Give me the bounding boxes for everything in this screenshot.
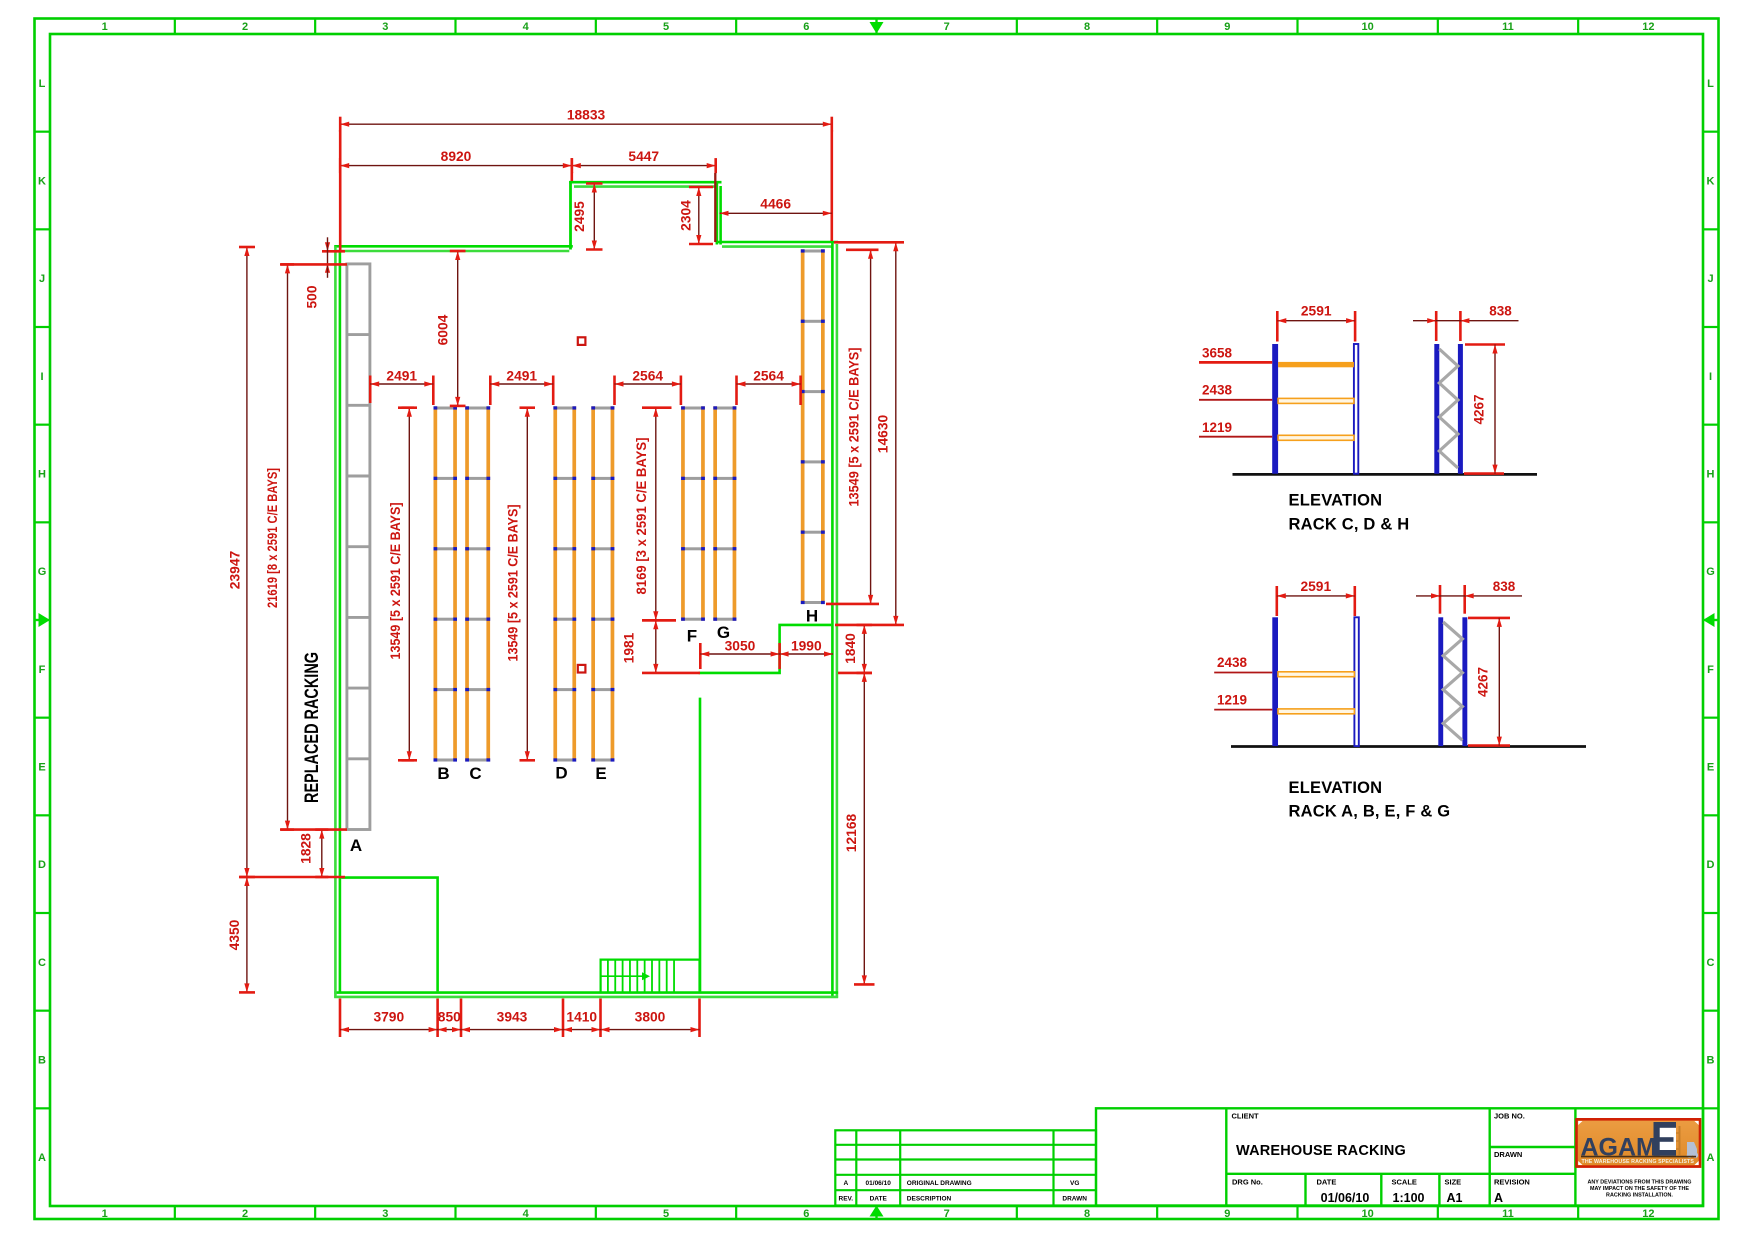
svg-text:DATE: DATE: [1317, 1178, 1337, 1187]
svg-text:10: 10: [1362, 1208, 1374, 1220]
svg-text:ELEVATION: ELEVATION: [1289, 492, 1383, 510]
svg-text:3050: 3050: [725, 639, 756, 654]
svg-text:SIZE: SIZE: [1445, 1178, 1462, 1187]
AGAME logo: [1577, 1119, 1701, 1166]
svg-text:1828: 1828: [299, 833, 314, 864]
svg-text:K: K: [38, 176, 46, 188]
centre mark arrow right: [1703, 613, 1719, 627]
svg-text:DRG No.: DRG No.: [1232, 1178, 1263, 1187]
svg-text:2438: 2438: [1217, 655, 1248, 670]
svg-text:1219: 1219: [1202, 420, 1232, 435]
svg-text:1:100: 1:100: [1393, 1191, 1425, 1205]
wall bottom: [334, 993, 838, 997]
svg-text:WAREHOUSE RACKING: WAREHOUSE RACKING: [1236, 1142, 1406, 1159]
svg-text:DRAWN: DRAWN: [1494, 1150, 1522, 1159]
dim 1410: [563, 1010, 601, 1033]
interior partition wall: [699, 625, 832, 673]
elevation 2 level 2438: [1214, 655, 1272, 673]
elevation 1 upright left: [1272, 344, 1278, 474]
rack E: [591, 406, 614, 761]
elevation 2 dim 4267: [1468, 618, 1510, 746]
centre mark arrow bottom: [870, 1206, 884, 1220]
svg-text:VG: VG: [1070, 1180, 1079, 1187]
svg-text:D: D: [1707, 859, 1715, 871]
svg-text:A: A: [1707, 1152, 1715, 1164]
svg-text:RACK C, D & H: RACK C, D & H: [1289, 516, 1410, 534]
elevation 2 frame upright left: [1438, 617, 1443, 746]
staircase: [601, 960, 700, 993]
elevation 2 ground line: [1231, 745, 1586, 748]
svg-text:4267: 4267: [1476, 667, 1491, 697]
elevation 2 level 1219: [1214, 693, 1272, 710]
elevation 2 dim 838: [1416, 579, 1522, 614]
svg-text:2491: 2491: [506, 369, 537, 384]
svg-text:H: H: [1707, 469, 1715, 481]
dim 8169 racks F G: [634, 408, 676, 621]
elevation 2 title: [1289, 779, 1451, 821]
wall right: [832, 241, 837, 998]
svg-text:3800: 3800: [635, 1010, 666, 1025]
svg-text:2564: 2564: [632, 369, 663, 384]
svg-text:A: A: [350, 836, 362, 855]
dim 13549 rack H: [826, 250, 879, 604]
svg-text:3: 3: [382, 21, 388, 33]
corner room wall: [341, 878, 437, 992]
svg-text:6004: 6004: [435, 314, 450, 345]
svg-text:8920: 8920: [441, 149, 472, 164]
dim 13549 rack B: [388, 408, 417, 761]
svg-text:01/06/10: 01/06/10: [866, 1180, 892, 1187]
svg-text:7: 7: [944, 1208, 950, 1220]
svg-text:3790: 3790: [373, 1010, 404, 1025]
svg-text:JOB NO.: JOB NO.: [1494, 1112, 1525, 1121]
svg-text:9: 9: [1224, 1208, 1230, 1220]
elevation 1 beam 3658: [1278, 362, 1354, 367]
wall top-right: [716, 242, 839, 247]
dim 1990: [780, 639, 833, 657]
svg-text:C: C: [469, 764, 481, 783]
elevation 1 beam 1219: [1278, 435, 1354, 440]
svg-text:5447: 5447: [628, 149, 659, 164]
svg-text:2591: 2591: [1300, 579, 1331, 594]
dim 3943: [461, 1010, 563, 1033]
dim 14630: [834, 242, 904, 625]
dim 3800: [601, 1010, 700, 1033]
wall notch right side: [717, 181, 721, 245]
svg-text:C: C: [38, 957, 46, 969]
dim 3790: [340, 1010, 438, 1033]
title block texts: [1232, 1112, 1530, 1206]
svg-text:8: 8: [1084, 1208, 1090, 1220]
svg-text:J: J: [1707, 273, 1713, 285]
elevation 2 frame bracing: [1443, 622, 1462, 740]
svg-text:838: 838: [1489, 304, 1512, 319]
svg-text:D: D: [555, 764, 567, 783]
disclaimer text: [1587, 1180, 1691, 1199]
dim 4466: [720, 197, 832, 216]
svg-text:SCALE: SCALE: [1392, 1178, 1417, 1187]
svg-text:B: B: [437, 764, 449, 783]
svg-text:21619 [8 x 2591 C/E BAYS]: 21619 [8 x 2591 C/E BAYS]: [265, 468, 280, 608]
elevation 1 dim 2591: [1277, 304, 1355, 342]
svg-text:838: 838: [1493, 579, 1516, 594]
svg-text:THE WAREHOUSE RACKING SPECIALI: THE WAREHOUSE RACKING SPECIALISTS: [1582, 1159, 1695, 1165]
svg-text:500: 500: [305, 285, 320, 308]
dim 1981: [622, 620, 701, 673]
svg-text:E: E: [1707, 762, 1714, 774]
svg-text:13549 [5 x 2591 C/E BAYS]: 13549 [5 x 2591 C/E BAYS]: [388, 503, 403, 660]
svg-text:REVISION: REVISION: [1494, 1178, 1530, 1187]
svg-text:A: A: [38, 1152, 46, 1164]
svg-text:C: C: [1707, 957, 1715, 969]
svg-text:ANY DEVIATIONS FROM THIS DRAWI: ANY DEVIATIONS FROM THIS DRAWING: [1587, 1180, 1691, 1186]
svg-text:3: 3: [382, 1208, 388, 1220]
elevation 1 title: [1289, 492, 1410, 534]
wall left: [335, 246, 340, 998]
revision table texts: [839, 1180, 1088, 1203]
label REPLACED RACKING: [302, 652, 323, 803]
elevation 1 beam 2438: [1278, 398, 1354, 403]
svg-text:2591: 2591: [1301, 304, 1332, 319]
svg-text:1981: 1981: [622, 632, 637, 663]
dim 2564 aisle E-F: [615, 369, 681, 406]
elevation 1 frame bracing: [1439, 349, 1458, 468]
svg-text:3943: 3943: [497, 1010, 528, 1025]
rack B: [434, 406, 458, 761]
elevation 1 frame upright right: [1458, 344, 1463, 474]
svg-text:4350: 4350: [227, 919, 242, 950]
svg-text:11: 11: [1502, 21, 1514, 33]
rack H: [801, 249, 825, 604]
svg-text:1219: 1219: [1217, 693, 1247, 708]
svg-text:H: H: [806, 607, 818, 626]
svg-text:13549 [5 x 2591 C/E BAYS]: 13549 [5 x 2591 C/E BAYS]: [847, 348, 862, 507]
svg-text:2495: 2495: [572, 201, 587, 232]
elevation 1 ground line: [1233, 473, 1538, 476]
svg-text:RACKING INSTALLATION.: RACKING INSTALLATION.: [1606, 1193, 1673, 1199]
svg-text:A: A: [843, 1180, 848, 1187]
svg-text:RACK A, B, E, F & G: RACK A, B, E, F & G: [1289, 803, 1451, 821]
svg-text:E: E: [38, 762, 45, 774]
centre mark arrow left: [35, 613, 51, 627]
elevation 2 upright right: [1354, 617, 1358, 746]
svg-text:1840: 1840: [843, 633, 858, 664]
centre mark arrow top: [870, 19, 884, 34]
svg-text:9: 9: [1224, 21, 1230, 33]
svg-text:2491: 2491: [386, 369, 417, 384]
rack D: [553, 406, 576, 761]
wall top-left: [334, 246, 573, 251]
dim 2564 aisle G-H: [737, 369, 801, 406]
svg-text:1: 1: [102, 1208, 108, 1220]
dim 12168: [844, 673, 875, 985]
svg-text:G: G: [1706, 566, 1715, 578]
dim 3050: [700, 639, 779, 670]
wall notch left side: [569, 181, 572, 250]
svg-text:F: F: [687, 627, 697, 646]
svg-text:7: 7: [944, 21, 950, 33]
svg-text:F: F: [1707, 664, 1714, 676]
elevation 2 beam 1219: [1278, 709, 1354, 714]
dim 23947: [228, 247, 346, 877]
svg-text:CLIENT: CLIENT: [1232, 1112, 1260, 1121]
svg-text:1410: 1410: [566, 1010, 597, 1025]
svg-text:2304: 2304: [679, 200, 694, 231]
svg-text:F: F: [39, 664, 46, 676]
elevation 2 beam 2438: [1278, 672, 1354, 677]
svg-text:2438: 2438: [1202, 383, 1233, 398]
interior wall vertical: [699, 698, 702, 992]
svg-text:4: 4: [523, 21, 530, 33]
svg-text:DRAWN: DRAWN: [1062, 1195, 1087, 1202]
svg-text:14630: 14630: [876, 414, 891, 453]
dim 21619 rack A: [265, 264, 347, 829]
svg-text:6: 6: [803, 21, 809, 33]
svg-text:I: I: [40, 371, 43, 383]
dim 1828: [299, 830, 329, 877]
svg-text:10: 10: [1362, 21, 1374, 33]
svg-text:D: D: [38, 859, 46, 871]
svg-text:13549 [5 x 2591 C/E BAYS]: 13549 [5 x 2591 C/E BAYS]: [506, 505, 521, 662]
elevation 1 frame upright left: [1434, 344, 1439, 474]
svg-text:I: I: [1709, 371, 1712, 383]
dim 2491 aisle A-B: [370, 369, 433, 406]
column marker square 1: [578, 337, 586, 345]
svg-text:A1: A1: [1447, 1191, 1463, 1205]
svg-text:6: 6: [803, 1208, 809, 1220]
svg-text:B: B: [1707, 1055, 1715, 1067]
svg-text:5: 5: [663, 1208, 669, 1220]
svg-text:01/06/10: 01/06/10: [1321, 1191, 1370, 1205]
svg-text:12: 12: [1642, 21, 1654, 33]
dim 2304: [679, 187, 713, 244]
dim 18833: [340, 108, 832, 252]
svg-text:L: L: [39, 78, 46, 90]
svg-text:B: B: [38, 1055, 46, 1067]
svg-text:ORIGINAL DRAWING: ORIGINAL DRAWING: [907, 1180, 972, 1187]
dim 1840: [838, 625, 872, 673]
elevation 1 level 2438: [1199, 383, 1272, 400]
rack G: [713, 406, 736, 621]
svg-text:12168: 12168: [844, 813, 859, 852]
svg-text:11: 11: [1502, 1208, 1514, 1220]
svg-text:3658: 3658: [1202, 346, 1233, 361]
bottom dimension extension lines: [340, 999, 700, 1038]
dim 13549 rack D: [506, 408, 536, 761]
svg-text:2: 2: [242, 21, 248, 33]
elevation 1 upright right: [1354, 344, 1358, 474]
dim 500: [305, 237, 346, 308]
svg-text:H: H: [38, 469, 46, 481]
dim 850: [438, 1010, 462, 1033]
elevation 2 upright left: [1272, 617, 1278, 746]
svg-text:E: E: [595, 764, 606, 783]
dim 6004: [435, 251, 465, 406]
svg-text:L: L: [1707, 78, 1714, 90]
svg-text:8: 8: [1084, 21, 1090, 33]
svg-text:G: G: [38, 566, 47, 578]
dim 5447: [572, 149, 716, 242]
elevation 1 dim 838: [1413, 304, 1519, 342]
svg-text:4: 4: [523, 1208, 530, 1220]
revision table: [835, 1130, 1096, 1205]
svg-text:DESCRIPTION: DESCRIPTION: [907, 1195, 952, 1202]
column marker square 2: [578, 665, 586, 673]
dim 8920: [340, 149, 572, 181]
dim 2491 aisle C-D: [490, 369, 553, 406]
elevation 2 dim 2591: [1277, 579, 1355, 616]
elevation 2 frame upright right: [1462, 617, 1467, 746]
svg-text:ELEVATION: ELEVATION: [1289, 779, 1383, 797]
svg-text:2564: 2564: [753, 369, 784, 384]
svg-text:REPLACED RACKING: REPLACED RACKING: [302, 652, 323, 803]
wall notch top: [569, 182, 721, 186]
dim 2495: [572, 184, 603, 250]
rack labels: [350, 607, 818, 856]
svg-text:REV.: REV.: [839, 1195, 854, 1202]
svg-text:23947: 23947: [228, 550, 243, 589]
svg-text:5: 5: [663, 21, 669, 33]
svg-text:12: 12: [1642, 1208, 1654, 1220]
elevation 1 level 1219: [1199, 420, 1272, 437]
svg-text:DATE: DATE: [870, 1195, 888, 1202]
rack F: [681, 406, 705, 621]
title block frame: [1096, 1108, 1703, 1205]
svg-text:MAY IMPACT ON THE SAFETY OF TH: MAY IMPACT ON THE SAFETY OF THE: [1590, 1186, 1689, 1192]
dim 4350: [227, 877, 255, 992]
svg-text:4267: 4267: [1472, 394, 1487, 424]
svg-text:8169 [3 x 2591 C/E BAYS]: 8169 [3 x 2591 C/E BAYS]: [634, 438, 649, 595]
svg-text:2: 2: [242, 1208, 248, 1220]
rack C: [465, 406, 490, 761]
svg-text:A: A: [1494, 1191, 1503, 1205]
elevation 1 dim 4267: [1464, 345, 1505, 474]
svg-text:18833: 18833: [567, 108, 606, 123]
svg-text:1990: 1990: [791, 639, 822, 654]
svg-text:850: 850: [438, 1010, 461, 1025]
svg-text:K: K: [1707, 176, 1715, 188]
svg-text:J: J: [39, 273, 45, 285]
svg-text:1: 1: [102, 21, 108, 33]
rack A (replaced racking): [347, 264, 370, 830]
svg-text:4466: 4466: [760, 197, 791, 212]
elevation 1 level 3658: [1199, 346, 1272, 363]
